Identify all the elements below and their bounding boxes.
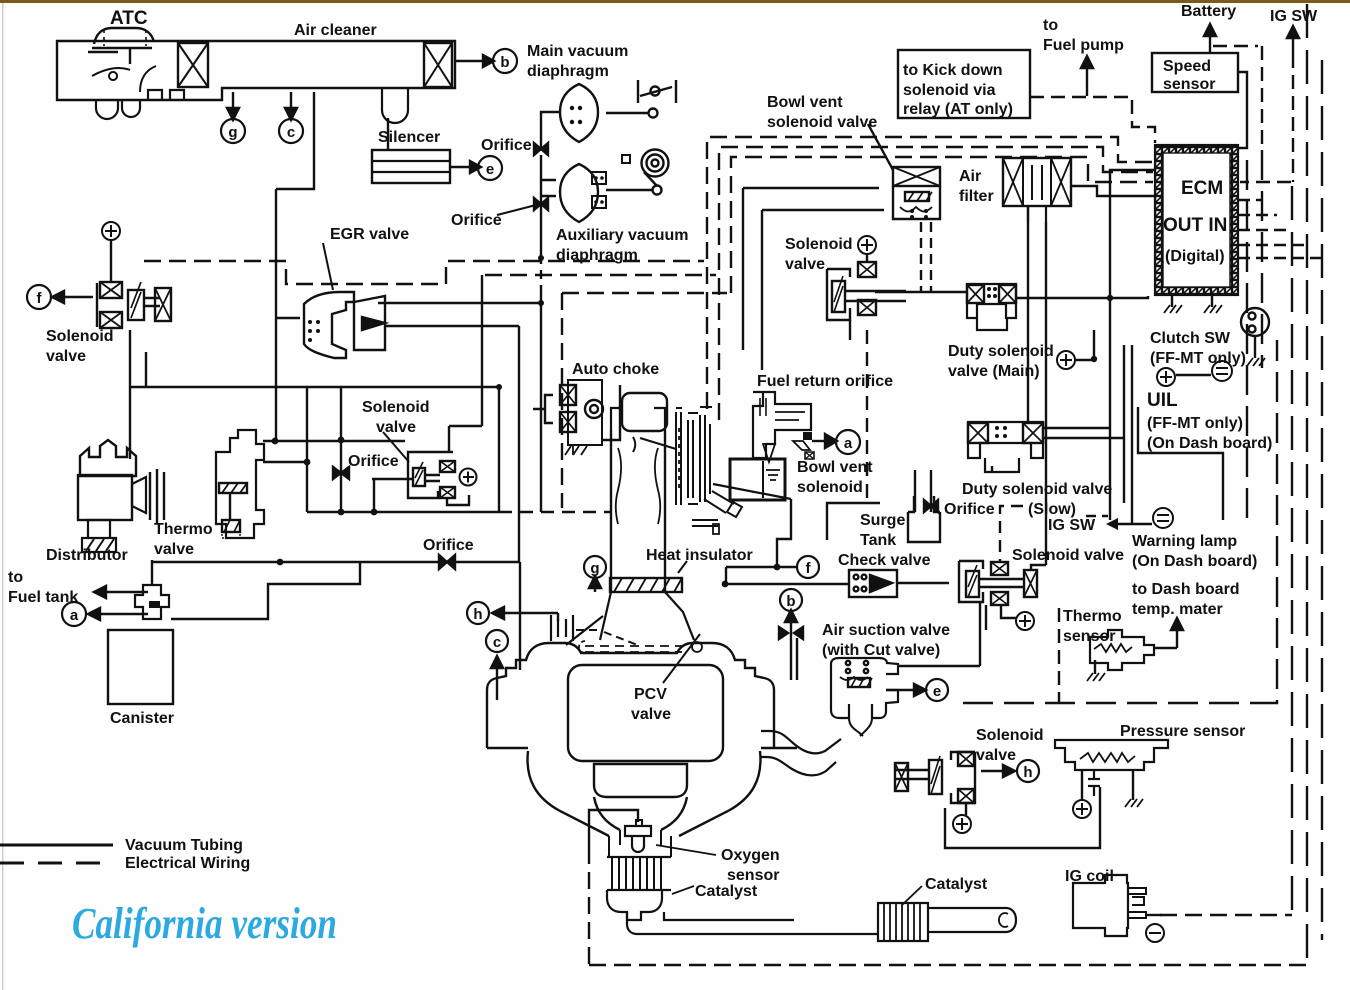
svg-text:(On Dash board): (On Dash board) bbox=[1132, 553, 1257, 570]
svg-text:to Dash board: to Dash board bbox=[1132, 581, 1240, 598]
svg-text:valve: valve bbox=[785, 256, 825, 273]
svg-text:sensor: sensor bbox=[1063, 628, 1115, 645]
svg-text:Surge: Surge bbox=[860, 512, 905, 529]
svg-text:Bowl vent: Bowl vent bbox=[767, 94, 843, 111]
svg-text:(FF-MT only): (FF-MT only) bbox=[1147, 415, 1243, 432]
svg-text:(Slow): (Slow) bbox=[1028, 501, 1076, 518]
svg-text:Fuel pump: Fuel pump bbox=[1043, 37, 1124, 54]
svg-text:valve: valve bbox=[376, 419, 416, 436]
svg-text:Vacuum Tubing: Vacuum Tubing bbox=[125, 837, 243, 854]
svg-text:relay (AT only): relay (AT only) bbox=[903, 101, 1013, 118]
svg-text:Air cleaner: Air cleaner bbox=[294, 22, 377, 39]
svg-text:Canister: Canister bbox=[110, 710, 174, 727]
svg-text:valve: valve bbox=[976, 747, 1016, 764]
svg-text:Orifice: Orifice bbox=[423, 537, 474, 554]
svg-text:temp. mater: temp. mater bbox=[1132, 601, 1223, 618]
svg-text:solenoid valve: solenoid valve bbox=[767, 114, 877, 131]
svg-text:OUT IN: OUT IN bbox=[1163, 215, 1227, 236]
svg-text:Duty solenoid valve: Duty solenoid valve bbox=[962, 481, 1112, 498]
svg-text:solenoid via: solenoid via bbox=[903, 82, 996, 99]
svg-text:Thermo: Thermo bbox=[1063, 608, 1122, 625]
svg-text:to: to bbox=[1043, 17, 1058, 34]
svg-text:Battery: Battery bbox=[1181, 3, 1236, 20]
svg-text:Oxygen: Oxygen bbox=[721, 847, 780, 864]
svg-text:ATC: ATC bbox=[110, 8, 148, 29]
svg-text:Fuel tank: Fuel tank bbox=[8, 589, 78, 606]
svg-text:e: e bbox=[933, 683, 941, 700]
svg-text:California version: California version bbox=[72, 898, 337, 948]
svg-text:(FF-MT only): (FF-MT only) bbox=[1150, 350, 1246, 367]
svg-text:Solenoid: Solenoid bbox=[785, 236, 853, 253]
svg-text:a: a bbox=[70, 607, 79, 624]
svg-text:(with Cut valve): (with Cut valve) bbox=[822, 642, 940, 659]
svg-text:sensor: sensor bbox=[1163, 76, 1215, 93]
svg-text:g: g bbox=[228, 124, 237, 141]
svg-text:Duty solenoid: Duty solenoid bbox=[948, 343, 1054, 360]
svg-text:g: g bbox=[590, 560, 599, 577]
svg-text:Bowl vent: Bowl vent bbox=[797, 459, 873, 476]
svg-text:valve: valve bbox=[154, 541, 194, 558]
svg-text:Tank: Tank bbox=[860, 532, 896, 549]
svg-text:Clutch SW: Clutch SW bbox=[1150, 330, 1231, 347]
svg-text:Catalyst: Catalyst bbox=[925, 876, 988, 893]
svg-text:a: a bbox=[844, 435, 853, 452]
svg-text:valve (Main): valve (Main) bbox=[948, 363, 1040, 380]
svg-text:Warning lamp: Warning lamp bbox=[1132, 533, 1237, 550]
svg-text:valve: valve bbox=[631, 706, 671, 723]
svg-text:Auto choke: Auto choke bbox=[572, 361, 659, 378]
svg-text:Main vacuum: Main vacuum bbox=[527, 43, 628, 60]
svg-text:EGR valve: EGR valve bbox=[330, 226, 409, 243]
svg-text:Orifice: Orifice bbox=[481, 137, 532, 154]
svg-text:Catalyst: Catalyst bbox=[695, 883, 758, 900]
svg-text:Silencer: Silencer bbox=[378, 129, 440, 146]
svg-text:h: h bbox=[473, 606, 482, 623]
svg-text:ECM: ECM bbox=[1181, 178, 1223, 199]
svg-text:c: c bbox=[287, 124, 295, 141]
svg-text:to Kick down: to Kick down bbox=[903, 62, 1003, 79]
svg-text:Orifice: Orifice bbox=[348, 453, 399, 470]
svg-text:diaphragm: diaphragm bbox=[556, 247, 638, 264]
svg-text:Air: Air bbox=[959, 168, 981, 185]
svg-text:Pressure sensor: Pressure sensor bbox=[1120, 723, 1245, 740]
svg-text:Heat insulator: Heat insulator bbox=[646, 547, 753, 564]
svg-text:Thermo: Thermo bbox=[154, 521, 213, 538]
svg-text:Air suction valve: Air suction valve bbox=[822, 622, 950, 639]
svg-text:IG SW: IG SW bbox=[1270, 8, 1318, 25]
svg-text:Solenoid: Solenoid bbox=[46, 328, 114, 345]
svg-text:UIL: UIL bbox=[1147, 390, 1178, 411]
svg-text:Auxiliary vacuum: Auxiliary vacuum bbox=[556, 227, 689, 244]
svg-text:valve: valve bbox=[46, 348, 86, 365]
svg-text:solenoid: solenoid bbox=[797, 479, 863, 496]
svg-text:c: c bbox=[493, 634, 501, 651]
svg-text:sensor: sensor bbox=[727, 867, 779, 884]
svg-text:filter: filter bbox=[959, 188, 994, 205]
svg-text:diaphragm: diaphragm bbox=[527, 63, 609, 80]
svg-text:(On Dash board): (On Dash board) bbox=[1147, 435, 1272, 452]
svg-text:Fuel return orifice: Fuel return orifice bbox=[757, 373, 893, 390]
svg-text:b: b bbox=[786, 593, 795, 610]
svg-text:Distributor: Distributor bbox=[46, 547, 128, 564]
svg-text:Solenoid valve: Solenoid valve bbox=[1012, 547, 1124, 564]
svg-text:h: h bbox=[1023, 764, 1032, 781]
svg-text:b: b bbox=[500, 54, 509, 71]
svg-text:Speed: Speed bbox=[1163, 58, 1211, 75]
svg-text:to: to bbox=[8, 569, 23, 586]
svg-text:IG SW: IG SW bbox=[1048, 517, 1096, 534]
svg-text:Orifice: Orifice bbox=[451, 212, 502, 229]
svg-text:e: e bbox=[486, 161, 494, 178]
svg-text:Solenoid: Solenoid bbox=[976, 727, 1044, 744]
svg-text:(Digital): (Digital) bbox=[1165, 248, 1225, 265]
svg-text:Electrical Wiring: Electrical Wiring bbox=[125, 855, 250, 872]
svg-text:Solenoid: Solenoid bbox=[362, 399, 430, 416]
svg-text:IG coil: IG coil bbox=[1065, 868, 1114, 885]
svg-text:PCV: PCV bbox=[634, 686, 667, 703]
svg-text:Orifice: Orifice bbox=[944, 501, 995, 518]
svg-text:Check valve: Check valve bbox=[838, 552, 931, 569]
